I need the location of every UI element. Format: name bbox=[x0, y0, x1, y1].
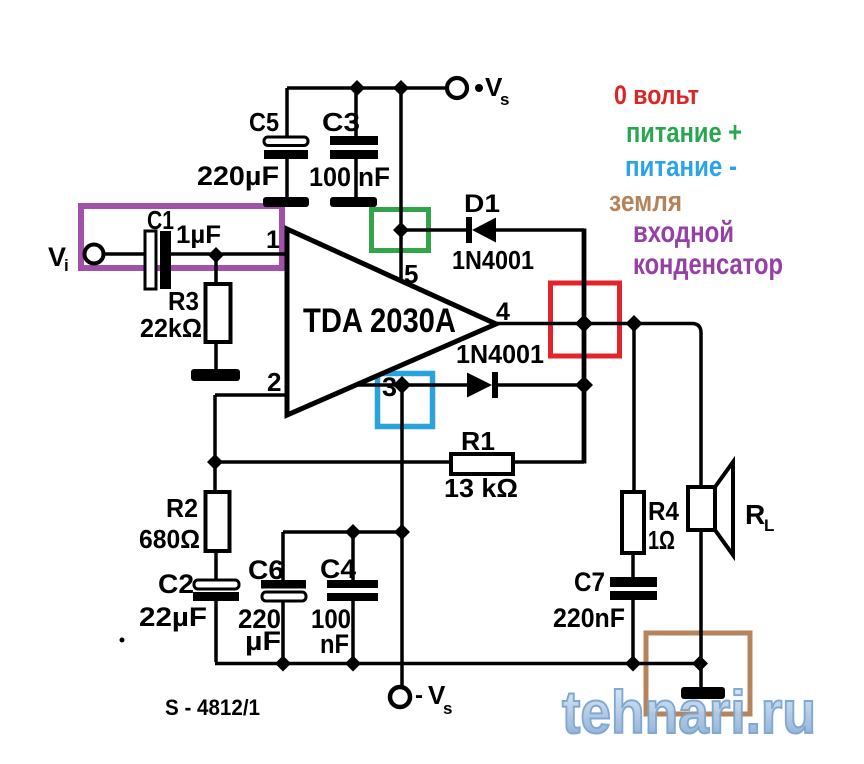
svg-text:2: 2 bbox=[267, 367, 281, 397]
svg-text:tehnari.ru: tehnari.ru bbox=[562, 679, 816, 746]
svg-text:TDA 2030A: TDA 2030A bbox=[303, 302, 456, 340]
svg-text:питание +: питание + bbox=[626, 117, 742, 149]
svg-text:1: 1 bbox=[266, 226, 280, 254]
svg-text:конденсатор: конденсатор bbox=[633, 248, 783, 281]
svg-text:nF: nF bbox=[320, 629, 349, 659]
svg-text:1µF: 1µF bbox=[176, 221, 221, 249]
svg-text:µF: µF bbox=[245, 626, 281, 656]
svg-text:s: s bbox=[500, 90, 509, 109]
svg-text:входной: входной bbox=[633, 216, 734, 249]
svg-text:1N4001: 1N4001 bbox=[456, 339, 544, 369]
svg-text:3: 3 bbox=[382, 372, 397, 402]
svg-text:C4: C4 bbox=[320, 554, 356, 584]
svg-text:C7: C7 bbox=[574, 567, 605, 597]
svg-text:питание -: питание - bbox=[625, 151, 737, 183]
svg-text:22kΩ: 22kΩ bbox=[140, 313, 202, 343]
svg-text:0 вольт: 0 вольт bbox=[614, 80, 699, 110]
svg-text:220µF: 220µF bbox=[197, 161, 279, 191]
svg-text:13 kΩ: 13 kΩ bbox=[444, 473, 518, 503]
svg-text:R4: R4 bbox=[648, 496, 679, 526]
svg-text:C1: C1 bbox=[147, 205, 174, 235]
svg-text:22µF: 22µF bbox=[139, 602, 207, 632]
svg-text:nF: nF bbox=[358, 162, 390, 192]
svg-text:D1: D1 bbox=[464, 190, 500, 218]
svg-text:i: i bbox=[64, 256, 69, 275]
svg-text:C5: C5 bbox=[249, 107, 279, 137]
svg-text:C6: C6 bbox=[248, 555, 284, 585]
svg-text:100: 100 bbox=[309, 162, 351, 192]
svg-text:220nF: 220nF bbox=[553, 603, 625, 633]
svg-text:L: L bbox=[764, 516, 774, 535]
svg-text:R: R bbox=[745, 499, 765, 530]
svg-text:-: - bbox=[415, 682, 423, 709]
svg-text:C3: C3 bbox=[322, 107, 360, 137]
svg-text:R3: R3 bbox=[168, 286, 199, 316]
svg-text:R1: R1 bbox=[461, 426, 495, 456]
svg-text:4: 4 bbox=[496, 298, 510, 326]
svg-text:R2: R2 bbox=[166, 493, 198, 523]
svg-text:земля: земля bbox=[609, 186, 682, 218]
svg-text:S - 4812/1: S - 4812/1 bbox=[165, 695, 260, 720]
svg-text:680Ω: 680Ω bbox=[139, 524, 200, 554]
svg-text:1N4001: 1N4001 bbox=[452, 245, 534, 275]
svg-text:C2: C2 bbox=[158, 569, 194, 599]
svg-text:5: 5 bbox=[404, 259, 418, 289]
svg-text:s: s bbox=[443, 699, 452, 718]
svg-text:1Ω: 1Ω bbox=[648, 525, 675, 555]
